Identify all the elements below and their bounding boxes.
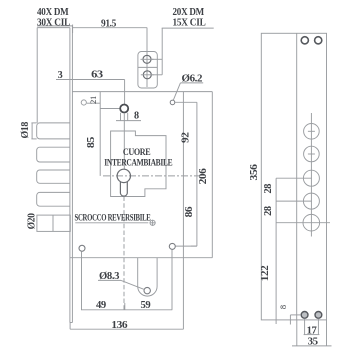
dim 17 (304, 319, 306, 335)
centerline cylinder axis horizontal (103, 175, 200, 177)
latch block (37, 215, 70, 231)
label Ø20 (27, 213, 38, 229)
right view: faceplate outline (261, 33, 326, 320)
bolt hole 5 (303, 214, 320, 231)
dim 206 (198, 168, 209, 184)
svg-text:85: 85 (86, 137, 97, 148)
cylinder module outline (111, 131, 166, 197)
bolt hole 3 (303, 170, 319, 186)
dim 92 / 86 line (196, 102, 198, 246)
hole bottom-right (169, 243, 175, 249)
svg-text:CUORE: CUORE (123, 147, 151, 157)
svg-text:15X CIL: 15X CIL (173, 17, 206, 29)
bolt hole 2 (304, 146, 320, 162)
dim 8 (right) (289, 315, 291, 325)
svg-text:63: 63 (91, 70, 103, 81)
dim 35 (296, 320, 298, 346)
bolt hole 1 (304, 124, 320, 140)
hole H2 (Ø6.2) (170, 100, 175, 105)
svg-text:28: 28 (263, 206, 274, 216)
bolt hole 4 (303, 193, 319, 209)
wire screw axis vertical (146, 28, 148, 87)
wire cylinder axis dashed (123, 197, 125, 310)
svg-text:INTERCAMBIABILE: INTERCAMBIABILE (104, 157, 172, 167)
rod slot (138, 258, 157, 296)
label 40X DM / 30X CIL (37, 6, 70, 29)
svg-text:86: 86 (184, 207, 195, 218)
internal plate edge (182, 92, 184, 330)
svg-text:30X CIL: 30X CIL (37, 17, 70, 29)
leader H2 to dim line (175, 101, 197, 103)
faceplate fold edge (296, 33, 298, 320)
deadbolt pin 4 (37, 192, 70, 206)
svg-text:28: 28 (263, 184, 274, 194)
node latch symbol (150, 220, 155, 225)
fixing screw left (301, 312, 308, 319)
wire bolt stem (310, 113, 312, 237)
dim 28/28/122 line (275, 178, 277, 324)
svg-text:Ø18: Ø18 (20, 122, 31, 139)
faceplate front edge (37, 27, 70, 29)
label SCROCCO REVERSIBILE (75, 213, 151, 223)
label Ø8.3 (99, 271, 119, 282)
svg-text:122: 122 (260, 265, 271, 281)
svg-text:35: 35 (308, 337, 318, 348)
hole Ø8.3 (144, 287, 150, 293)
svg-text:356: 356 (249, 164, 260, 180)
svg-text:8: 8 (278, 305, 288, 309)
dim 91.5 (101, 18, 116, 29)
dim 8 (pin) (120, 113, 122, 121)
dim 49 / 59 (96, 300, 151, 311)
euro cylinder profile (117, 169, 130, 196)
svg-text:SCROCCO REVERSIBILE: SCROCCO REVERSIBILE (75, 213, 151, 223)
dim 21 / 85 line (99, 92, 101, 176)
svg-text:21: 21 (89, 96, 98, 104)
dim Ø18 (31, 122, 36, 124)
label Ø6.2 (182, 73, 203, 84)
follower pin hole (120, 105, 128, 113)
screw S1 (143, 55, 151, 63)
screw ring A (301, 37, 308, 44)
hole bottom-left (79, 245, 85, 251)
deadbolt pin 2 (37, 147, 70, 162)
underline 30X CIL (37, 25, 73, 27)
svg-text:17: 17 (307, 325, 317, 336)
dim 3 / 63 (58, 70, 103, 81)
deadbolt pin 3 (37, 170, 70, 183)
deadbolt pin 1 (37, 123, 70, 139)
svg-text:206: 206 (198, 168, 209, 184)
leader drop to screws (161, 28, 163, 75)
hole H1 (81, 100, 86, 105)
fixing screw right (315, 312, 322, 319)
svg-text:8: 8 (134, 110, 139, 121)
label CUORE INTERCAMBIABILE (104, 147, 172, 167)
screw S2 (143, 71, 151, 79)
lock body outline (72, 91, 212, 93)
svg-text:92: 92 (181, 132, 192, 143)
cylinder tab (138, 52, 157, 89)
dim 136 (111, 320, 127, 331)
label 20X DM / 15X CIL (173, 6, 206, 29)
wire pin axis (123, 113, 125, 169)
leader 15X CIL underline (162, 27, 214, 29)
dim 356 (249, 164, 260, 180)
svg-text:Ø20: Ø20 (27, 213, 38, 229)
screw ring B (315, 37, 322, 44)
